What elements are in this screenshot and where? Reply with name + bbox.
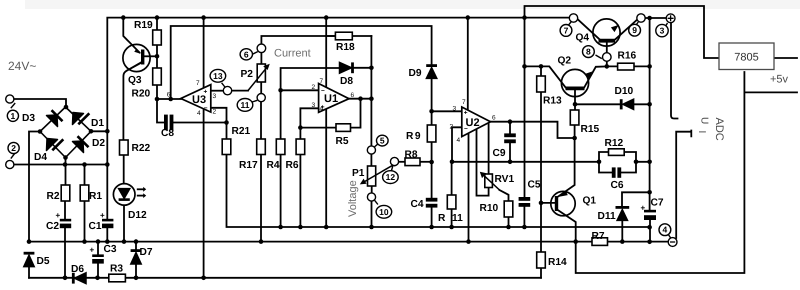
capacitor C5 (519, 197, 531, 201)
wire C8 right to R21 node (173, 122, 227, 124)
junction U2 out / C9 (508, 119, 513, 124)
wire U3 pin7 supply (203, 18, 205, 88)
labels bold (22, 20, 664, 275)
wire term6 riser (261, 36, 335, 44)
transistor Q4 (593, 19, 620, 46)
resistor R2 (61, 185, 70, 201)
svg-text:11: 11 (452, 213, 463, 224)
svg-text:−: − (204, 105, 208, 112)
svg-text:+: + (641, 204, 646, 213)
wire D12 to rail (123, 205, 125, 241)
LED D12 (113, 184, 135, 206)
svg-text:4: 4 (457, 137, 461, 144)
svg-text:3: 3 (213, 93, 217, 100)
svg-text:I: I (696, 131, 707, 134)
wire supply vertical x524 (524, 18, 526, 197)
wire P1 wiper to term12 (394, 162, 396, 166)
op-amps (181, 84, 491, 137)
terminal 2 open circle (6, 160, 14, 168)
wire R8 right (420, 161, 432, 163)
wire D10 right lead (633, 103, 650, 105)
resistor R10 (504, 201, 513, 217)
potentiometer P1 body (368, 166, 376, 186)
wire terminal1 to bridge top (14, 99, 66, 107)
wire P1 to term10 (371, 186, 373, 193)
transistor Q3 (123, 44, 150, 71)
junction U2 out step / R15 / Q1 emitter (572, 136, 577, 141)
svg-text:+: + (464, 110, 468, 117)
wire U3 pin3 to term13 (211, 90, 224, 92)
wire R13 bottom long (540, 92, 542, 203)
resistor R5 (336, 124, 351, 132)
wire bridge right to vertical (91, 130, 107, 132)
wire Q3 emitter down to R22 (123, 62, 142, 141)
svg-text:R17: R17 (239, 160, 258, 171)
diode D9 (426, 68, 436, 79)
svg-text:P2: P2 (241, 69, 254, 80)
resistor bodies (61, 30, 634, 282)
svg-text:D12: D12 (128, 210, 147, 221)
junction Q3 base / U3 out / x171 (155, 54, 160, 59)
capacitor C7 (polar) (644, 210, 656, 213)
wire R12C6 left node (599, 152, 612, 173)
wire Q2 base down (574, 90, 576, 104)
diode D2 (bridge bottom-right) (73, 141, 84, 153)
wire U1 out down to term5 (370, 99, 372, 146)
resistor R9 (427, 125, 436, 142)
op-amp U1 (points right) (319, 84, 349, 113)
wire x107 vertical bridge+ down to C1 (106, 131, 108, 219)
wire term12 to R8 (399, 161, 405, 163)
wire R14 bottom (540, 268, 542, 278)
resistor R8 (405, 158, 420, 166)
node bridge vertices (64, 105, 69, 110)
svg-text:C2: C2 (46, 221, 59, 232)
diode D4 (bridge left-bottom) (47, 139, 58, 151)
wire 7805 out (774, 57, 798, 59)
wire term8 vertical (606, 43, 608, 67)
wire second rail y26 to D9 (171, 26, 432, 99)
svg-text:Q4: Q4 (576, 33, 590, 44)
svg-text:D8: D8 (340, 76, 353, 87)
resistor R18 (335, 32, 352, 40)
wire R1 bottom to rail (84, 201, 86, 242)
wire R18 left lead (326, 35, 335, 37)
svg-text:+5v: +5v (770, 74, 789, 86)
wire D8 right R18 right vertical (370, 36, 372, 99)
wire ADC I line (676, 131, 691, 239)
transistor Q1 (551, 191, 575, 215)
terminal 9 open circle (637, 14, 645, 22)
transistors (123, 19, 620, 216)
svg-text:24V~: 24V~ (8, 59, 36, 73)
svg-text:5: 5 (380, 136, 385, 146)
junction dots on bottom rail (63, 276, 68, 281)
svg-text:Voltage: Voltage (347, 180, 359, 217)
svg-text:2: 2 (450, 124, 454, 131)
svg-text:R8: R8 (405, 150, 418, 161)
junction terminal2 wire (63, 162, 68, 167)
resistor R21 (222, 139, 231, 155)
svg-text:10: 10 (379, 207, 389, 217)
wire Q3 base to R19R20 junction (144, 55, 157, 57)
svg-text:C4: C4 (411, 199, 424, 210)
svg-text:−: − (464, 126, 468, 133)
svg-text:D9: D9 (409, 68, 422, 79)
resistor R6 (296, 139, 305, 155)
capacitor C2 (polar) (60, 219, 71, 222)
wire R12C6 right node (621, 152, 649, 173)
wire D7 leads (135, 242, 137, 278)
svg-text:U1: U1 (324, 93, 338, 105)
wire bridge bottom to R2 chain (65, 158, 67, 186)
resistor R22 (120, 140, 129, 155)
svg-text:R7: R7 (592, 231, 605, 242)
terminal 6 open circle (257, 44, 266, 53)
terminal 1 open circle (6, 95, 14, 103)
svg-text:R21: R21 (232, 126, 251, 137)
capacitor C4 (426, 198, 438, 202)
svg-text:R19: R19 (134, 20, 153, 31)
wire C3 top lead (97, 242, 99, 255)
terminal 5 open circle (367, 146, 375, 154)
pot arrows (248, 64, 500, 190)
wire R22 to D12 (123, 155, 125, 184)
grey annotations (8, 48, 789, 218)
wire D8 bar to vertical (354, 67, 371, 69)
svg-text:C9: C9 (493, 148, 506, 159)
resistor R20 (153, 68, 162, 85)
svg-text:R13: R13 (543, 96, 562, 107)
svg-text:1: 1 (11, 111, 16, 121)
diode D7 (131, 253, 141, 264)
terminal 4 minus circle (668, 238, 677, 247)
svg-text:6: 6 (492, 115, 496, 122)
wire C5 bottom (523, 207, 525, 227)
svg-text:C8: C8 (161, 128, 174, 139)
svg-text:+: + (90, 246, 95, 255)
svg-text:D5: D5 (37, 256, 50, 267)
wire U3 pin2 elbow (211, 108, 227, 123)
svg-text:9: 9 (632, 25, 637, 35)
junction Q1 base / R13 / R14 (539, 201, 544, 206)
svg-text:11: 11 (241, 100, 250, 110)
wire U3 output (157, 98, 181, 100)
wire U1 pin3 elbow (300, 108, 318, 139)
wire term10 to mini rail (371, 201, 373, 227)
svg-text:C5: C5 (528, 180, 541, 191)
svg-text:6: 6 (244, 49, 249, 59)
junction R5 left / R6 (298, 125, 303, 130)
wire R15 bottom (574, 125, 576, 138)
wire top supply link to 7805 (525, 6, 720, 58)
wire C9 top lead (509, 122, 511, 134)
wire R5 right elbow to U1 out (351, 99, 361, 128)
wire P2 bottom to term11 (260, 82, 262, 94)
resistor R4 (276, 139, 285, 155)
wire C9 bottom lead (509, 143, 511, 162)
resistor R11 (447, 195, 456, 209)
junction dots on top rail (121, 15, 126, 20)
wire Q1 emitter riser (557, 138, 575, 197)
wire Q3 collector from rail (123, 18, 139, 53)
wire R15 top (574, 104, 576, 110)
wire minus bus x649 (649, 18, 651, 210)
wire R19 leads (156, 18, 158, 68)
svg-text:D7: D7 (140, 247, 153, 258)
wire term9 to plus (645, 17, 666, 19)
svg-text:R4: R4 (267, 160, 280, 171)
svg-text:2: 2 (213, 109, 217, 116)
resistor R3 (109, 274, 126, 282)
svg-text:6: 6 (351, 92, 355, 99)
diode D5 (24, 255, 34, 266)
terminal 8 open circle (603, 53, 612, 62)
wire C2 bottom to bottom rail (64, 228, 66, 278)
op-amp U3 (points left) (181, 85, 211, 113)
resistor R7 (592, 238, 608, 246)
wire Q4 right slant (615, 20, 637, 40)
wire Q1 collector (557, 210, 576, 242)
resistor R1 (80, 185, 89, 201)
svg-text:Q1: Q1 (583, 196, 597, 207)
terminal 10 open circle (367, 193, 375, 201)
svg-text:4: 4 (663, 225, 668, 235)
wire Q4 left slant (578, 19, 600, 39)
svg-text:+: + (56, 211, 61, 220)
diodes (24, 62, 634, 283)
resistor R17 (257, 139, 266, 155)
svg-text:12: 12 (386, 172, 396, 182)
wire D10 left lead (575, 103, 620, 105)
svg-text:R15: R15 (581, 124, 600, 135)
svg-text:8: 8 (586, 47, 591, 57)
svg-text:7805: 7805 (734, 52, 758, 64)
wire C1 bottom to rail (106, 228, 108, 242)
svg-text:−: − (321, 88, 325, 95)
wire U2 pin2 elbow (452, 127, 462, 162)
junction U3 pin2 / C8 / R21 (224, 120, 229, 125)
terminal 12 open circle (390, 157, 398, 165)
terminals (6, 14, 677, 247)
svg-text:U: U (699, 117, 710, 124)
wire ADC U line (671, 23, 678, 119)
wire feedback rail y161.8 (452, 161, 599, 163)
wire U2 pin4 down (468, 133, 470, 242)
wire term11 to R17 (260, 102, 262, 139)
wire RV1 bottom riser (477, 129, 489, 196)
svg-text:P1: P1 (352, 168, 365, 179)
wire C3 bottom lead (97, 264, 99, 278)
resistor R15 (570, 110, 579, 125)
wire D11 bottom (621, 220, 623, 242)
wire RV1 wiper to R10 (500, 190, 509, 201)
capacitor C1 (polar) (102, 219, 113, 222)
potentiometer P2 body (257, 64, 265, 82)
resistor R12 (609, 149, 625, 156)
svg-text:+: + (100, 211, 105, 220)
IC 7805 box (719, 43, 774, 70)
wire R17 bottom to rail (260, 155, 262, 242)
svg-text:+: + (321, 104, 325, 111)
wire U1 pin7 (325, 18, 327, 88)
capacitor C9 (504, 133, 516, 137)
wire top rail (107, 18, 569, 132)
svg-text:C3: C3 (104, 244, 117, 255)
svg-text:R16: R16 (618, 51, 637, 62)
opamp pin labels (167, 78, 496, 144)
junction Q2 emitter / R16 / term8 (605, 64, 610, 69)
wire R16 leads (607, 65, 650, 67)
svg-text:D2: D2 (92, 138, 105, 149)
svg-text:D11: D11 (598, 211, 616, 222)
junction dots on negative rail (27, 239, 32, 244)
svg-text:R12: R12 (605, 138, 624, 149)
svg-text:6: 6 (167, 92, 171, 99)
wire R6 bottom (299, 155, 301, 228)
terminal 7 open circle (569, 14, 577, 22)
svg-text:R5: R5 (336, 136, 349, 147)
svg-text:3: 3 (660, 26, 665, 36)
svg-text:R22: R22 (132, 143, 151, 154)
wire term13 to P2 arrow (232, 90, 248, 92)
wire R11 leads (451, 162, 453, 227)
junction dots on mini rail (278, 225, 283, 230)
terminal 13 open circle (223, 86, 231, 94)
svg-text:C6: C6 (611, 180, 624, 191)
wire R18 right lead (352, 35, 371, 37)
wire gnd link to 7805 (576, 72, 745, 273)
svg-text:3: 3 (453, 106, 457, 113)
svg-text:Q2: Q2 (558, 56, 572, 67)
junction U1 output nodes (358, 96, 363, 101)
diode D6 (75, 273, 87, 284)
svg-text:7: 7 (564, 25, 569, 35)
svg-text:R1: R1 (89, 191, 102, 202)
circled terminal digits (11, 25, 668, 235)
resistor R16 (618, 63, 634, 70)
wire U2 out step (491, 122, 575, 138)
svg-text:R14: R14 (548, 257, 567, 268)
wire plus5 rail (744, 91, 797, 93)
resistor R19 (153, 30, 162, 45)
junction supply / Q2 collector / R13 (522, 64, 527, 69)
wire C8 left elbow (157, 99, 164, 123)
wire R2 to C2 (64, 201, 66, 219)
wire R13 top (540, 66, 542, 76)
wire R5 left to R6 node (300, 127, 336, 129)
op-amp U2 (points right) (462, 107, 491, 137)
faint top band (25, 0, 800, 9)
wire term5 to P1 (370, 154, 372, 166)
svg-text:RV1: RV1 (495, 174, 515, 185)
svg-text:R3: R3 (110, 264, 123, 275)
svg-text:+: + (204, 89, 208, 96)
svg-text:R9: R9 (406, 131, 422, 142)
wire feedback y68 to D8 (281, 68, 340, 90)
wire R1 riser (84, 165, 86, 186)
wire U1 pin2 (281, 89, 319, 91)
wire RV1 top riser (488, 123, 490, 174)
wire D9 chain down (431, 77, 433, 227)
diode D8 (340, 62, 352, 73)
wire U1 output (349, 98, 371, 100)
wire terminal2 run (14, 164, 107, 166)
wire U3 pin4 down (203, 109, 205, 278)
wire U2 pin3 (432, 110, 462, 112)
terminal 3 plus circle (666, 14, 675, 23)
svg-text:2: 2 (11, 143, 16, 153)
svg-text:R: R (438, 213, 446, 224)
wire U2 pin7 (467, 18, 469, 110)
wire C7 bottom to rails (649, 220, 651, 242)
svg-text:R2: R2 (47, 191, 60, 202)
svg-text:7: 7 (462, 99, 466, 106)
trimmer RV1 body (485, 174, 493, 188)
svg-text:7: 7 (196, 80, 200, 87)
svg-text:7: 7 (320, 78, 324, 85)
svg-text:R6: R6 (286, 160, 299, 171)
wire R4 (280, 90, 282, 227)
capacitor C3 (polar) (92, 254, 104, 257)
wire R14 link (540, 203, 542, 252)
wire Q2 emitter to term8 node (584, 66, 607, 87)
wire R21 leads and mini rail (227, 123, 650, 228)
trimmer RV1 wiper arrow (483, 174, 500, 190)
resistor R14 (537, 252, 546, 268)
wire D5 to bottom rail (28, 267, 30, 278)
capacitors (60, 115, 656, 264)
wire bottom rail (29, 277, 541, 279)
junction U2 pin2 / R11 (450, 160, 455, 165)
diode D1 (bridge top-right) (73, 113, 84, 125)
wire U1 pin4 (325, 109, 327, 227)
junction Q2 base / D10 / R15 (573, 102, 578, 107)
svg-text:Current: Current (274, 48, 311, 60)
svg-text:R20: R20 (132, 89, 151, 100)
wire R20 bottom (156, 85, 158, 99)
diode D11 (617, 210, 627, 221)
junction D11 top / C7 (647, 190, 652, 195)
svg-text:D6: D6 (71, 264, 84, 275)
svg-text:D3: D3 (22, 113, 35, 124)
svg-text:ADC: ADC (713, 118, 725, 141)
junction D9/R9/R8/U2 pin3 (429, 109, 434, 114)
terminal 11 open circle (257, 94, 265, 102)
capacitor C6 (612, 167, 616, 177)
junction U1 pin2 / R4 (278, 88, 283, 93)
diode D3 (bridge left-top) (47, 115, 58, 127)
svg-text:3: 3 (312, 102, 316, 109)
wire left branch x29 (29, 132, 40, 242)
svg-text:13: 13 (213, 71, 223, 81)
svg-text:4: 4 (197, 110, 201, 117)
wire Q2 collector branch (525, 66, 566, 87)
potentiometer P2 wiper arrow (248, 67, 267, 91)
potentiometer P1 wiper arrow (363, 165, 394, 183)
transistor Q2 (561, 69, 588, 96)
svg-text:Q3: Q3 (128, 75, 142, 86)
svg-text:D4: D4 (34, 152, 47, 163)
wire negative rail (29, 241, 668, 243)
svg-text:R10: R10 (480, 203, 499, 214)
wire D11 top elbow (622, 192, 650, 205)
svg-text:R18: R18 (336, 42, 355, 53)
wire R10 bottom (508, 217, 510, 227)
svg-text:2: 2 (312, 84, 316, 91)
wire Q1 base (541, 202, 556, 204)
junction R12 C6 nodes / minus bus (597, 160, 602, 165)
